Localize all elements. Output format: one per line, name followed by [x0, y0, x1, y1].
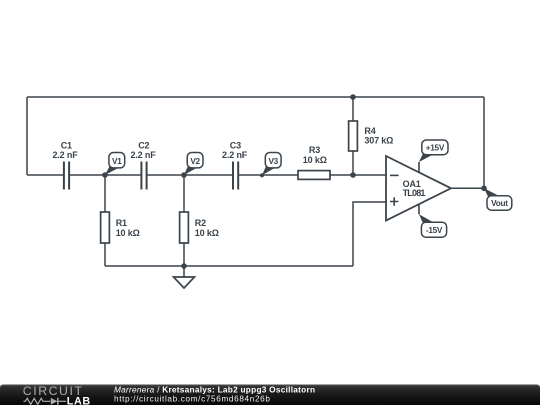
wire R1 top lead: [104, 175, 106, 212]
svg-text:Marrenera / Kretsanalys: Lab2: Marrenera / Kretsanalys: Lab2 uppg3 Osci…: [114, 385, 315, 395]
wire C2 to V2: [147, 174, 184, 176]
wire plus input feedback: [353, 202, 386, 266]
svg-text:R3: R3: [309, 145, 320, 155]
label C3 value: [222, 140, 248, 160]
junction R4 top: [350, 94, 356, 100]
resistor R3: [298, 171, 330, 180]
svg-text:2.2 nF: 2.2 nF: [52, 150, 78, 160]
junction ground: [181, 263, 187, 269]
svg-text:-15V: -15V: [426, 226, 443, 235]
net +15V flag: [419, 140, 448, 162]
svg-text:+15V: +15V: [426, 144, 445, 153]
svg-text:Vout: Vout: [491, 199, 508, 208]
svg-text:C3: C3: [230, 140, 241, 150]
label R1 value: [116, 218, 140, 238]
op-amp -V pin: [418, 204, 420, 214]
node V2 flag: [184, 153, 203, 176]
svg-text:V1: V1: [112, 157, 122, 166]
wire right vertical: [483, 97, 485, 188]
wire C3 to R3: [239, 174, 299, 176]
junction V2: [181, 172, 187, 178]
svg-text:10 kΩ: 10 kΩ: [116, 228, 140, 238]
wire R2 bottom lead: [183, 243, 185, 266]
wire left vertical: [26, 97, 28, 175]
wire top rail: [27, 96, 484, 98]
svg-text:C1: C1: [61, 140, 72, 150]
svg-text:http://circuitlab.com/c756md68: http://circuitlab.com/c756md684n26b: [114, 394, 271, 403]
wire R4 bottom lead: [352, 151, 354, 175]
wire R2 top lead: [183, 175, 185, 212]
wire R1 bottom lead: [104, 243, 106, 266]
wire rail left to C1: [27, 174, 63, 176]
logo resistor-diode symbol: [24, 398, 67, 405]
footer bar: [0, 385, 540, 405]
ground: [174, 277, 195, 288]
svg-text:TL081: TL081: [403, 188, 426, 198]
svg-text:2.2 nF: 2.2 nF: [222, 150, 248, 160]
junction V1: [102, 172, 108, 178]
op-amp OA1: [386, 156, 451, 221]
svg-text:R2: R2: [195, 218, 206, 228]
capacitor C1: [64, 162, 69, 190]
resistor R4: [349, 121, 358, 151]
resistor R2: [180, 212, 189, 243]
svg-text:10 kΩ: 10 kΩ: [195, 228, 219, 238]
svg-text:V3: V3: [268, 157, 278, 166]
wire R3 to op-amp minus input: [330, 174, 386, 176]
svg-text:V2: V2: [190, 157, 200, 166]
capacitor C3: [233, 162, 238, 190]
node V1 flag: [105, 153, 125, 176]
label C2 value: [130, 140, 156, 160]
label R2 value: [195, 218, 219, 238]
svg-text:2.2 nF: 2.2 nF: [130, 150, 156, 160]
wire C1 to V1: [70, 174, 142, 176]
label R4 value: [364, 126, 393, 145]
logo diode triangle: [51, 398, 58, 405]
svg-text:307 kΩ: 307 kΩ: [364, 135, 393, 145]
label R3 value: [303, 145, 327, 165]
wire op-amp output: [451, 187, 484, 189]
net -15V flag: [419, 214, 447, 237]
svg-text:10 kΩ: 10 kΩ: [303, 155, 327, 165]
wire ground stem: [183, 266, 185, 277]
capacitor C2: [141, 162, 146, 190]
junction R4 bottom: [350, 172, 356, 178]
node Vout flag: [484, 188, 512, 210]
svg-text:C2: C2: [138, 140, 149, 150]
op-amp +V pin: [418, 162, 420, 172]
wire R4 top lead: [352, 97, 354, 121]
resistor R1: [101, 212, 110, 243]
label C1 value: [52, 140, 78, 160]
wire V2 to C3: [184, 174, 232, 176]
svg-text:LAB: LAB: [67, 395, 91, 405]
junction Vout: [481, 186, 487, 192]
node V3 flag: [260, 153, 281, 178]
svg-text:R1: R1: [116, 218, 127, 228]
wire bottom rail: [105, 265, 353, 267]
